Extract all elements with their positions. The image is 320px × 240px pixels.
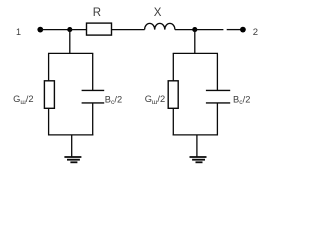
ground right bar 2 [192, 159, 205, 161]
wire inductor X to junction B [175, 29, 195, 31]
wire right branch down to capacitor C1 [92, 53, 94, 90]
wire stem junction B down [194, 30, 196, 54]
conductance G1 box [44, 81, 54, 109]
svg-text:Bс/2: Bс/2 [233, 94, 250, 106]
capacitor C1 top plate [82, 89, 105, 91]
wire G1 box to bottom rail [48, 108, 50, 135]
wire top rail left shunt [48, 52, 93, 54]
junction A dot [67, 27, 72, 32]
capacitor C2 top plate [206, 89, 230, 91]
wire junction B to gap [195, 29, 224, 31]
svg-text:Bс/2: Bс/2 [105, 94, 122, 106]
svg-text:X: X [154, 7, 162, 19]
resistor R [87, 23, 112, 35]
terminal dot 2 [240, 27, 246, 33]
wire right branch down to capacitor C2 [216, 53, 218, 90]
wire gap to terminal dot 2 [227, 29, 241, 31]
ground left bar 1 [64, 156, 81, 158]
wire dot1 to junction A [40, 29, 70, 31]
capacitor C2 bottom plate [206, 102, 230, 104]
wire resistor R to inductor X [112, 29, 145, 31]
capacitor C1 bottom plate [82, 102, 105, 104]
wire C1 to bottom rail [92, 103, 94, 136]
junction B dot [192, 27, 197, 32]
ground right bar 1 [190, 156, 207, 158]
wire top rail right shunt [173, 52, 218, 54]
wire stem junction A down [69, 30, 71, 54]
ground left bar 3 [70, 161, 77, 163]
wire left branch down to conductance G1 [48, 53, 50, 80]
svg-text:2: 2 [253, 27, 258, 37]
inductor X [145, 23, 175, 29]
svg-text:R: R [93, 7, 101, 19]
ground right bar 3 [196, 161, 203, 163]
wire left branch down to conductance G2 [172, 53, 174, 80]
wire C2 to bottom rail [216, 103, 218, 136]
wire junction A to resistor R [70, 29, 87, 31]
wire ground stem left [71, 135, 73, 157]
wire bottom rail left shunt [48, 134, 93, 136]
wire bottom rail right shunt [173, 134, 218, 136]
wire ground stem right [196, 135, 198, 157]
wire G2 box to bottom rail [172, 108, 174, 135]
terminal dot 1 [37, 27, 43, 33]
ground left bar 2 [67, 159, 80, 161]
svg-text:1: 1 [16, 27, 21, 37]
conductance G2 box [168, 81, 178, 109]
